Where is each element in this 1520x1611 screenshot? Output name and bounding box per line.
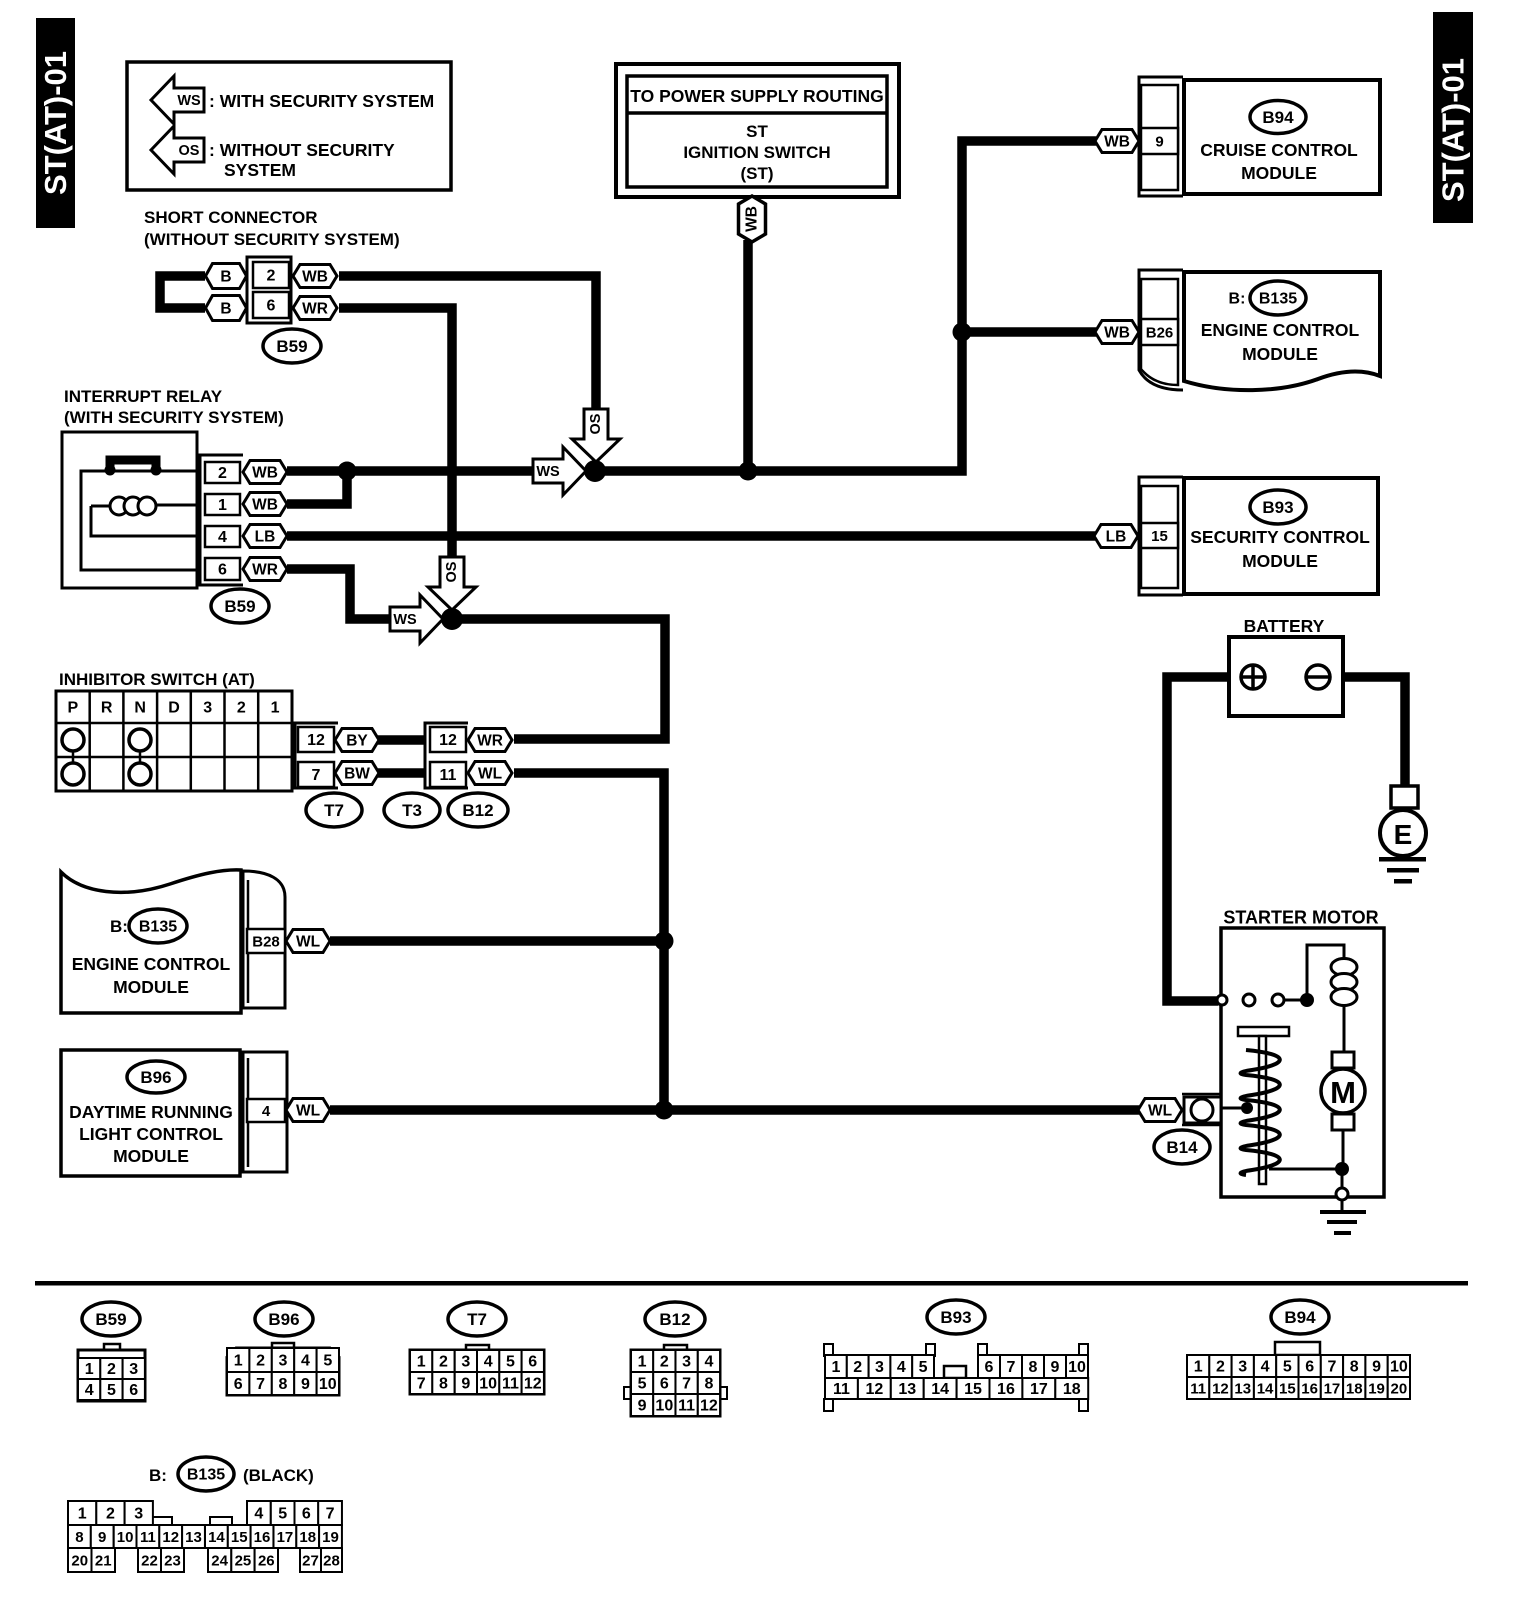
svg-text:8: 8 (704, 1376, 713, 1393)
svg-text:19: 19 (322, 1529, 339, 1546)
node junction A (584, 460, 606, 482)
svg-text:B12: B12 (462, 801, 493, 820)
svg-text:18: 18 (1063, 1381, 1081, 1398)
oval T3 (384, 793, 440, 827)
svg-text:7: 7 (1007, 1359, 1016, 1376)
svg-text:24: 24 (211, 1552, 228, 1569)
starter field coil (1331, 959, 1357, 976)
connector view B59 body (104, 1344, 120, 1351)
svg-text:17: 17 (277, 1529, 294, 1546)
svg-text:5: 5 (506, 1354, 515, 1371)
svg-text:WS: WS (536, 464, 560, 480)
ignition switch power box (616, 64, 899, 197)
svg-text:23: 23 (164, 1552, 181, 1569)
svg-text:3: 3 (134, 1506, 143, 1523)
svg-text:B96: B96 (268, 1310, 299, 1329)
ECM right connector strip (1139, 270, 1183, 390)
svg-text:9: 9 (1372, 1359, 1381, 1376)
svg-text:ST(AT)-01: ST(AT)-01 (1436, 58, 1471, 202)
svg-text:1: 1 (271, 700, 280, 717)
short connector oval B59 (263, 329, 321, 363)
T3 WL tag (468, 762, 512, 785)
starter field wiring (1307, 945, 1344, 1000)
svg-text:6: 6 (129, 1382, 138, 1399)
ECM left WL tag (286, 930, 330, 953)
short connector B tag row1 (206, 264, 247, 289)
relay internal wire switch (81, 471, 196, 570)
DRL connector strip (243, 1052, 287, 1172)
svg-text:10: 10 (1390, 1359, 1408, 1376)
DRL WL tag (286, 1099, 330, 1122)
connector view T7 body (466, 1345, 489, 1351)
svg-text:21: 21 (95, 1552, 112, 1569)
security connector strip (1139, 477, 1183, 595)
svg-text:26: 26 (258, 1552, 275, 1569)
arrow OS junction B (428, 557, 476, 610)
T3 pin 12 cell (430, 727, 466, 752)
svg-text:17: 17 (1030, 1381, 1048, 1398)
svg-text:3: 3 (875, 1359, 884, 1376)
svg-text:B93: B93 (940, 1308, 971, 1327)
node WL junction with DRL (655, 1101, 674, 1120)
svg-text:12: 12 (700, 1398, 718, 1415)
svg-text:SYSTEM: SYSTEM (224, 160, 296, 180)
svg-text:8: 8 (439, 1376, 448, 1393)
starter ground symbol (1341, 1200, 1344, 1211)
svg-text:6: 6 (1305, 1359, 1314, 1376)
inhibitor switch table (56, 691, 292, 791)
svg-text:B12: B12 (659, 1310, 690, 1329)
svg-text:13: 13 (898, 1381, 916, 1398)
svg-text:12: 12 (439, 732, 457, 749)
node branch to ECM B26 (953, 323, 972, 342)
svg-text:OS: OS (588, 413, 604, 434)
inhibitor switch contact circles N (129, 729, 151, 751)
svg-text:14: 14 (208, 1529, 225, 1546)
svg-text:28: 28 (323, 1552, 340, 1569)
svg-text:11: 11 (833, 1381, 850, 1398)
svg-text:WR: WR (477, 732, 503, 749)
svg-text:B: B (220, 300, 231, 317)
wire short connector loop B-B (160, 276, 205, 308)
svg-text:4: 4 (262, 1103, 271, 1120)
svg-text:WL: WL (296, 933, 320, 950)
legend WS arrow symbol (151, 76, 204, 124)
svg-text:2: 2 (1216, 1359, 1225, 1376)
svg-text:7: 7 (417, 1376, 426, 1393)
svg-text:5: 5 (107, 1382, 116, 1399)
svg-text:WR: WR (252, 561, 278, 578)
svg-text:(WITHOUT SECURITY SYSTEM): (WITHOUT SECURITY SYSTEM) (144, 230, 400, 249)
node ignition feed junction (739, 462, 758, 481)
T3 connector bracket (425, 723, 468, 788)
short connector WR tag (293, 297, 337, 320)
svg-text:8: 8 (279, 1376, 288, 1393)
wire branch to engine control module B26 (962, 327, 1096, 337)
wire main ST net to cruise/ECM (595, 141, 1096, 471)
svg-text:LB: LB (255, 528, 276, 545)
svg-text:20: 20 (71, 1552, 88, 1569)
connector view B12 oval (645, 1302, 705, 1336)
svg-text:WS: WS (393, 612, 417, 628)
svg-text:WB: WB (744, 206, 761, 232)
connector view B93 body (824, 1344, 833, 1356)
svg-text:MODULE: MODULE (113, 1146, 189, 1166)
svg-text:OS: OS (444, 561, 460, 582)
svg-text:TO POWER SUPPLY ROUTING: TO POWER SUPPLY ROUTING (630, 86, 883, 106)
DRL pin 4 cell (247, 1099, 285, 1122)
svg-text:B: B (220, 268, 231, 285)
arrow WS junction A (533, 447, 586, 495)
wire T3 pin11 WL down (514, 773, 664, 1106)
oval T7 (306, 793, 362, 827)
svg-text:LIGHT CONTROL: LIGHT CONTROL (79, 1124, 223, 1144)
svg-text:12: 12 (162, 1529, 179, 1546)
svg-text:15: 15 (1151, 528, 1168, 545)
wire BY to T3 (378, 735, 426, 745)
svg-text:P: P (67, 700, 78, 717)
svg-text:9: 9 (98, 1529, 106, 1546)
svg-text:MODULE: MODULE (1241, 163, 1317, 183)
svg-text:4: 4 (704, 1354, 713, 1371)
svg-text:B:: B: (110, 917, 128, 936)
svg-text:2: 2 (256, 1353, 265, 1370)
relay WB tag pin2 (243, 461, 287, 484)
connector view B12 body (664, 1345, 687, 1351)
svg-text:WB: WB (1104, 133, 1130, 150)
svg-text:WS: WS (177, 93, 201, 109)
svg-text:11: 11 (440, 767, 457, 784)
svg-text:1: 1 (1194, 1359, 1203, 1376)
connector view B135 body (150, 1517, 172, 1525)
wire battery positive to starter (1167, 677, 1242, 1001)
svg-text:16: 16 (997, 1381, 1015, 1398)
relay LB tag pin4 (243, 525, 287, 548)
svg-text:(WITH SECURITY SYSTEM): (WITH SECURITY SYSTEM) (64, 408, 284, 427)
ECM right WB tag (1095, 321, 1139, 344)
svg-text:2: 2 (218, 465, 227, 482)
starter B14 connector box (1182, 1093, 1221, 1096)
wire relay pin6 WR (287, 569, 392, 619)
svg-text:INHIBITOR SWITCH (AT): INHIBITOR SWITCH (AT) (59, 670, 255, 689)
svg-text:B94: B94 (1284, 1308, 1316, 1327)
svg-text:2: 2 (106, 1506, 115, 1523)
oval B12 (448, 793, 508, 827)
engine control module left box (61, 870, 241, 1013)
svg-text:3: 3 (682, 1354, 691, 1371)
svg-text:8: 8 (1029, 1359, 1038, 1376)
connector view T7 oval (448, 1302, 506, 1336)
svg-text:B93: B93 (1262, 498, 1293, 517)
page code tab ST(AT)-01 left (36, 18, 75, 228)
svg-text:BY: BY (346, 732, 368, 749)
battery box (1229, 637, 1343, 716)
svg-text:5: 5 (323, 1353, 332, 1370)
svg-text:WR: WR (302, 300, 328, 317)
node starter contact junction (1300, 993, 1314, 1007)
relay contact bar (110, 460, 156, 471)
svg-text:T3: T3 (402, 801, 422, 820)
security pin 15 cell (1141, 523, 1178, 548)
svg-text:15: 15 (964, 1381, 982, 1398)
wire ignition switch WB down to junction (743, 240, 753, 471)
svg-text:5: 5 (919, 1359, 928, 1376)
svg-text:INTERRUPT RELAY: INTERRUPT RELAY (64, 387, 223, 406)
svg-text:7: 7 (1327, 1359, 1336, 1376)
svg-text:13: 13 (1234, 1380, 1251, 1397)
node starter ground junction (1335, 1162, 1349, 1176)
svg-text:OS: OS (179, 143, 200, 159)
svg-text:DAYTIME RUNNING: DAYTIME RUNNING (69, 1102, 233, 1122)
short connector B tag row2 (206, 296, 247, 321)
svg-text:B59: B59 (276, 337, 307, 356)
starter ground terminal (1336, 1188, 1348, 1200)
cruise pin 9 cell (1141, 128, 1178, 154)
svg-text:9: 9 (301, 1376, 310, 1393)
svg-text:18: 18 (299, 1529, 316, 1546)
svg-text:2: 2 (439, 1354, 448, 1371)
svg-text:12: 12 (1212, 1380, 1229, 1397)
battery positive terminal (1241, 665, 1265, 689)
svg-text:(ST): (ST) (740, 164, 773, 183)
svg-text:9: 9 (1155, 133, 1163, 150)
svg-text:17: 17 (1324, 1380, 1341, 1397)
svg-text:B135: B135 (187, 1467, 225, 1484)
svg-text:B:: B: (1229, 291, 1246, 308)
svg-text:12: 12 (307, 732, 325, 749)
DRL B96 oval (127, 1061, 185, 1093)
short connector body B59 (247, 257, 291, 323)
starter plunger spring (1241, 1050, 1280, 1175)
ECM left pin B28 cell (247, 929, 285, 953)
svg-text:B14: B14 (1166, 1138, 1198, 1157)
cruise B94 oval (1250, 101, 1306, 134)
svg-text:ENGINE CONTROL: ENGINE CONTROL (1201, 320, 1360, 340)
starter brush upper (1332, 1052, 1354, 1068)
security LB tag (1094, 525, 1138, 548)
short connector WB tag (293, 265, 337, 288)
svg-text:6: 6 (985, 1359, 994, 1376)
svg-text:4: 4 (85, 1382, 94, 1399)
svg-text:1: 1 (218, 497, 227, 514)
svg-text:11: 11 (678, 1398, 695, 1415)
svg-text:6: 6 (218, 562, 227, 579)
interrupt relay box (62, 432, 197, 588)
svg-text:ST(AT)-01: ST(AT)-01 (38, 51, 73, 195)
T3 WR tag (468, 729, 512, 752)
starter plunger (1238, 1027, 1289, 1036)
svg-text:2: 2 (237, 700, 246, 717)
wire battery negative to ground E (1328, 677, 1405, 786)
relay coil (91, 505, 110, 508)
svg-text:D: D (168, 700, 180, 717)
svg-text:WL: WL (296, 1102, 320, 1119)
wire BW to T3 (378, 768, 426, 778)
DRL module box (61, 1050, 240, 1176)
svg-text:MODULE: MODULE (113, 977, 189, 997)
legend box (127, 62, 451, 190)
arrow WS junction B (390, 595, 443, 643)
svg-text:6: 6 (267, 298, 276, 315)
wire relay pin4 LB to security module (287, 531, 1095, 541)
svg-text:10: 10 (479, 1376, 497, 1393)
svg-text:15: 15 (231, 1529, 248, 1546)
connector view B94 oval (1271, 1300, 1329, 1334)
wire pin2 WB to junction A (339, 276, 596, 409)
inhibitor BW tag (335, 762, 379, 785)
svg-text:9: 9 (638, 1398, 647, 1415)
node junction B (441, 608, 463, 630)
battery negative terminal (1306, 665, 1330, 689)
svg-text:BW: BW (344, 765, 370, 782)
svg-text:11: 11 (502, 1376, 519, 1393)
relay connector bracket B59 (200, 455, 243, 585)
svg-text:B59: B59 (224, 597, 255, 616)
svg-text:3: 3 (1238, 1359, 1247, 1376)
svg-text:10: 10 (655, 1398, 673, 1415)
cruise connector strip (1139, 77, 1183, 196)
svg-text:6: 6 (660, 1376, 669, 1393)
svg-text:19: 19 (1368, 1380, 1385, 1397)
ground E connector box (1391, 786, 1418, 808)
svg-text:ST: ST (746, 122, 768, 141)
svg-text:7: 7 (326, 1506, 335, 1523)
connector view B59 oval (82, 1302, 140, 1336)
inhibitor connector bracket T7 (295, 723, 338, 788)
svg-text:MODULE: MODULE (1242, 344, 1318, 364)
relay pin 1 cell (205, 494, 240, 515)
wire junction B to T3 pin12 WR (452, 619, 665, 739)
svg-text:9: 9 (461, 1376, 470, 1393)
svg-text:MODULE: MODULE (1242, 551, 1318, 571)
svg-text:4: 4 (218, 529, 227, 546)
wire relay pin1 WB riser (287, 473, 347, 504)
svg-text:1: 1 (85, 1361, 94, 1378)
svg-text:BATTERY: BATTERY (1244, 616, 1325, 636)
svg-text:22: 22 (141, 1552, 158, 1569)
svg-text:6: 6 (302, 1506, 311, 1523)
svg-text:20: 20 (1391, 1380, 1408, 1397)
cruise control module box (1184, 80, 1380, 194)
svg-text:3: 3 (203, 700, 212, 717)
svg-text:9: 9 (1051, 1359, 1060, 1376)
connector view B96 oval (255, 1302, 313, 1336)
svg-text:SECURITY CONTROL: SECURITY CONTROL (1190, 527, 1370, 547)
svg-text:11: 11 (140, 1529, 156, 1546)
svg-text:27: 27 (302, 1552, 319, 1569)
svg-text:M: M (1330, 1075, 1356, 1110)
svg-text:25: 25 (235, 1552, 252, 1569)
svg-text:7: 7 (682, 1376, 691, 1393)
svg-text:B26: B26 (1146, 324, 1174, 341)
ECM right pin B26 cell (1141, 319, 1178, 345)
ECM right module box (1184, 272, 1380, 390)
relay oval B59 (211, 589, 269, 623)
svg-text:12: 12 (524, 1376, 542, 1393)
svg-text:4: 4 (1261, 1359, 1270, 1376)
svg-text:4: 4 (301, 1353, 310, 1370)
T3 pin 11 cell (430, 762, 466, 787)
svg-text:ENGINE CONTROL: ENGINE CONTROL (72, 954, 231, 974)
svg-text:WL: WL (478, 765, 502, 782)
inhibitor pin 7 cell (298, 762, 334, 787)
inhibitor BY tag (335, 729, 379, 752)
svg-text:1: 1 (417, 1354, 426, 1371)
svg-text:B135: B135 (1259, 291, 1297, 308)
svg-text:IGNITION SWITCH: IGNITION SWITCH (683, 143, 830, 162)
ignition switch WB vertical tag (739, 196, 766, 242)
connector view B94 body (1275, 1342, 1320, 1355)
connector view B96 body (272, 1343, 294, 1349)
svg-text:1: 1 (638, 1354, 647, 1371)
svg-text:10: 10 (1068, 1359, 1086, 1376)
connector view B93 oval (927, 1300, 985, 1334)
svg-text:WB: WB (252, 464, 278, 481)
svg-text:: WITH SECURITY SYSTEM: : WITH SECURITY SYSTEM (209, 91, 434, 111)
legend OS arrow symbol (151, 126, 204, 174)
arrow OS junction A (572, 409, 620, 462)
relay pin 4 cell (205, 526, 240, 547)
short connector pin 6 cell (253, 292, 289, 318)
relay WB tag pin1 (243, 493, 287, 516)
svg-text:18: 18 (1346, 1380, 1363, 1397)
svg-text:CRUISE CONTROL: CRUISE CONTROL (1200, 140, 1358, 160)
svg-text:R: R (101, 700, 113, 717)
svg-text:6: 6 (234, 1376, 243, 1393)
svg-text:E: E (1394, 819, 1413, 850)
svg-text:B135: B135 (139, 919, 177, 936)
wire relay pin2 WB (287, 466, 533, 476)
svg-text:B59: B59 (95, 1310, 126, 1329)
security B93 oval (1250, 490, 1306, 524)
svg-text:(BLACK): (BLACK) (243, 1466, 314, 1485)
svg-text:WB: WB (302, 268, 328, 285)
svg-text:2: 2 (660, 1354, 669, 1371)
svg-text:STARTER MOTOR: STARTER MOTOR (1223, 907, 1378, 927)
node WL junction with ECM B28 (655, 932, 674, 951)
svg-text:5: 5 (278, 1506, 287, 1523)
svg-text:T7: T7 (467, 1310, 487, 1329)
svg-text:2: 2 (853, 1359, 862, 1376)
svg-text:WB: WB (1104, 324, 1130, 341)
cruise WB tag (1095, 130, 1139, 153)
svg-text:2: 2 (267, 268, 276, 285)
svg-text:16: 16 (1301, 1380, 1318, 1397)
relay pin 6 cell (205, 558, 240, 580)
svg-text:N: N (134, 700, 146, 717)
svg-text:1: 1 (234, 1353, 243, 1370)
starter solenoid actuator contact (1222, 1107, 1243, 1110)
svg-text:B:: B: (149, 1466, 167, 1485)
svg-text:4: 4 (484, 1354, 493, 1371)
relay coil leads (91, 505, 196, 536)
svg-text:6: 6 (528, 1354, 537, 1371)
inhibitor pin 12 cell (298, 727, 334, 752)
starter oval B14 (1154, 1130, 1210, 1164)
svg-text:12: 12 (865, 1381, 883, 1398)
svg-text:WL: WL (1148, 1102, 1172, 1119)
svg-text:5: 5 (1283, 1359, 1292, 1376)
svg-text:5: 5 (638, 1376, 647, 1393)
svg-text:8: 8 (1350, 1359, 1359, 1376)
svg-text:WB: WB (252, 496, 278, 513)
starter motor box (1221, 928, 1384, 1197)
short connector pin 2 cell (253, 262, 289, 288)
svg-text:10: 10 (319, 1376, 337, 1393)
svg-text:8: 8 (75, 1529, 83, 1546)
svg-text:: WITHOUT SECURITY: : WITHOUT SECURITY (209, 140, 395, 160)
starter brush lower (1332, 1114, 1354, 1130)
